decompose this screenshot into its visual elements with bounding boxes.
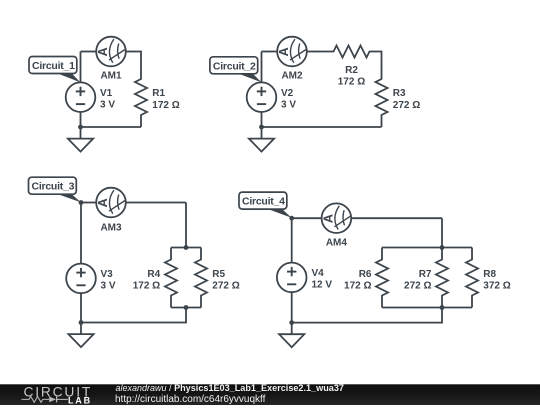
wire bottom node down and left to V3 junction bbox=[80, 308, 186, 323]
wire bottom bus R6-R7-R8 bbox=[382, 307, 472, 309]
resistor R5 bbox=[195, 248, 207, 308]
wire V4 bottom to junction bbox=[291, 292, 293, 322]
svg-text:R3: R3 bbox=[393, 88, 406, 99]
label R1 value 172 Ω bbox=[152, 88, 179, 111]
ground (circuit 4) bbox=[279, 323, 304, 348]
svg-text:AM2: AM2 bbox=[281, 71, 303, 82]
svg-text:A: A bbox=[96, 47, 110, 56]
label callout Circuit_4 pointer bbox=[260, 206, 292, 218]
svg-text:172 Ω: 172 Ω bbox=[338, 77, 365, 88]
resistor R1 bbox=[135, 67, 147, 127]
svg-text:3 V: 3 V bbox=[101, 281, 116, 292]
wire AM3 right to corner bbox=[126, 202, 186, 204]
ammeter AM1 bbox=[96, 37, 126, 67]
label callout Circuit_1 pointer bbox=[50, 71, 80, 83]
junction node parallel top bbox=[440, 245, 445, 250]
label R5 value 272 Ω bbox=[212, 269, 239, 292]
svg-text:V1: V1 bbox=[100, 88, 113, 99]
svg-text:172 Ω: 172 Ω bbox=[152, 100, 179, 111]
svg-text:R8: R8 bbox=[483, 269, 496, 280]
wire AM2 right to R2 left bbox=[307, 51, 322, 53]
junction node parallel bottom bbox=[184, 305, 189, 310]
svg-text:R6: R6 bbox=[359, 269, 372, 280]
junction node parallel bottom bbox=[440, 305, 445, 310]
label callout Circuit_2 pointer bbox=[231, 71, 261, 82]
voltage source V4 bbox=[277, 263, 307, 293]
junction node at V1 bottom bbox=[78, 125, 83, 130]
wire bottom bus R4-R5 bbox=[171, 307, 201, 309]
node: Circuit 1 group bbox=[29, 37, 180, 152]
svg-text:172 Ω: 172 Ω bbox=[133, 281, 160, 292]
label R4 value 172 Ω bbox=[133, 269, 161, 292]
svg-text:http://circuitlab.com/c64r6yvv: http://circuitlab.com/c64r6yvvuqkff bbox=[115, 394, 266, 405]
label callout Circuit_3 box bbox=[29, 177, 77, 194]
wire corner down to R1 top bbox=[140, 51, 142, 67]
wire R3 bottom to bottom rail bbox=[261, 126, 382, 128]
resistor R4 bbox=[165, 248, 177, 308]
svg-text:R2: R2 bbox=[345, 65, 358, 76]
junction node parallel top bbox=[184, 245, 189, 250]
wire V3 bottom to junction bbox=[80, 293, 82, 322]
wire R2 right corner down to R3 top bbox=[381, 51, 383, 67]
wire top rail to AM1 left bbox=[81, 51, 97, 53]
resistor R2 bbox=[322, 46, 382, 58]
node: Circuit 4 group bbox=[239, 192, 511, 347]
wire junction A to AM3 left bbox=[81, 202, 96, 204]
wire R1 bottom to bottom rail bbox=[80, 126, 141, 128]
ground (circuit 3) bbox=[68, 323, 93, 348]
svg-text:Circuit_4: Circuit_4 bbox=[242, 196, 285, 208]
label R3 value 272 Ω bbox=[393, 88, 420, 111]
voltage source V1 bbox=[66, 82, 96, 112]
svg-text:AM4: AM4 bbox=[326, 238, 348, 249]
label V3 value 3 V bbox=[101, 269, 116, 292]
svg-text:A: A bbox=[96, 198, 110, 207]
junction node at V2 bottom bbox=[259, 125, 264, 130]
resistor R8 bbox=[466, 248, 478, 308]
svg-text:A: A bbox=[322, 214, 336, 223]
wire V3 top to junction A bbox=[80, 203, 82, 264]
wire corner down to parallel top node bbox=[185, 203, 187, 248]
wire V4 top to junction B bbox=[291, 218, 293, 263]
resistor R7 bbox=[436, 248, 448, 308]
wire AM1 right to corner bbox=[126, 51, 141, 53]
svg-text:3 V: 3 V bbox=[281, 100, 296, 111]
junction node at V3 bottom bbox=[79, 320, 84, 325]
svg-text:3 V: 3 V bbox=[100, 100, 115, 111]
svg-text:A: A bbox=[277, 47, 291, 56]
junction node A (label anchor) bbox=[79, 200, 84, 205]
junction node B (label anchor) bbox=[289, 216, 294, 221]
resistor R3 bbox=[376, 67, 388, 127]
svg-text:R7: R7 bbox=[419, 269, 432, 280]
CircuitLab logo circuit glyph (wire, resistor, diode) bbox=[22, 396, 68, 402]
wire V2 top to top rail bbox=[261, 52, 263, 83]
ground (circuit 2) bbox=[249, 127, 274, 152]
svg-text:V4: V4 bbox=[312, 268, 325, 279]
svg-text:12 V: 12 V bbox=[312, 280, 333, 291]
svg-text:alexandrawu / Physics1E03_Lab1: alexandrawu / Physics1E03_Lab1_Exercise2… bbox=[116, 383, 344, 393]
label R6 value 172 Ω bbox=[344, 269, 372, 292]
wire bottom node down and left to V4 junction bbox=[291, 308, 442, 323]
label V2 value 3 V bbox=[281, 88, 296, 111]
label callout Circuit_1 box bbox=[29, 57, 77, 74]
svg-text:Circuit_3: Circuit_3 bbox=[32, 181, 75, 193]
wire corner down to parallel top node bbox=[441, 218, 443, 247]
svg-text:272 Ω: 272 Ω bbox=[404, 281, 431, 292]
svg-text:272 Ω: 272 Ω bbox=[212, 281, 239, 292]
svg-text:Circuit_2: Circuit_2 bbox=[213, 60, 256, 72]
resistor R6 bbox=[376, 248, 388, 308]
svg-text:V2: V2 bbox=[281, 88, 294, 99]
svg-text:272 Ω: 272 Ω bbox=[393, 100, 420, 111]
junction node at V4 bottom bbox=[289, 320, 294, 325]
node: Circuit 3 group bbox=[29, 177, 240, 347]
svg-text:V3: V3 bbox=[101, 269, 114, 280]
svg-text:372 Ω: 372 Ω bbox=[483, 281, 510, 292]
label V4 value 12 V bbox=[312, 268, 333, 291]
label R2 value 172 Ω bbox=[338, 65, 365, 88]
svg-text:LAB: LAB bbox=[68, 395, 92, 405]
ammeter AM3 bbox=[96, 188, 126, 218]
svg-text:172 Ω: 172 Ω bbox=[344, 281, 371, 292]
voltage source V2 bbox=[247, 82, 277, 112]
svg-text:R1: R1 bbox=[152, 88, 165, 99]
wire V2 bottom to junction bbox=[261, 112, 263, 127]
svg-text:AM1: AM1 bbox=[100, 71, 122, 82]
wire V1 bottom to junction bbox=[80, 112, 82, 127]
ground (circuit 1) bbox=[68, 127, 93, 152]
wire top bus R4-R5 bbox=[171, 247, 201, 249]
label callout Circuit_3 pointer bbox=[50, 191, 81, 202]
label R7 value 272 Ω bbox=[404, 269, 432, 292]
voltage source V3 bbox=[66, 264, 96, 294]
ammeter AM2 bbox=[277, 37, 307, 67]
ammeter AM4 bbox=[322, 203, 352, 233]
svg-text:Circuit_1: Circuit_1 bbox=[32, 60, 75, 72]
wire junction B to AM4 left bbox=[292, 217, 322, 219]
label callout Circuit_4 box bbox=[239, 192, 287, 209]
node: Circuit 2 group bbox=[210, 37, 420, 152]
svg-text:R5: R5 bbox=[212, 269, 225, 280]
wire V1 top to top rail bbox=[80, 52, 82, 83]
svg-text:AM3: AM3 bbox=[100, 223, 122, 234]
svg-text:R4: R4 bbox=[147, 269, 160, 280]
label R8 value 372 Ω bbox=[483, 269, 510, 292]
wire top bus R6-R7-R8 bbox=[382, 247, 472, 249]
label V1 value 3 V bbox=[100, 88, 115, 111]
label callout Circuit_2 box bbox=[210, 57, 258, 74]
wire AM4 right to corner bbox=[351, 217, 442, 219]
wire top rail to AM2 left bbox=[262, 51, 278, 53]
